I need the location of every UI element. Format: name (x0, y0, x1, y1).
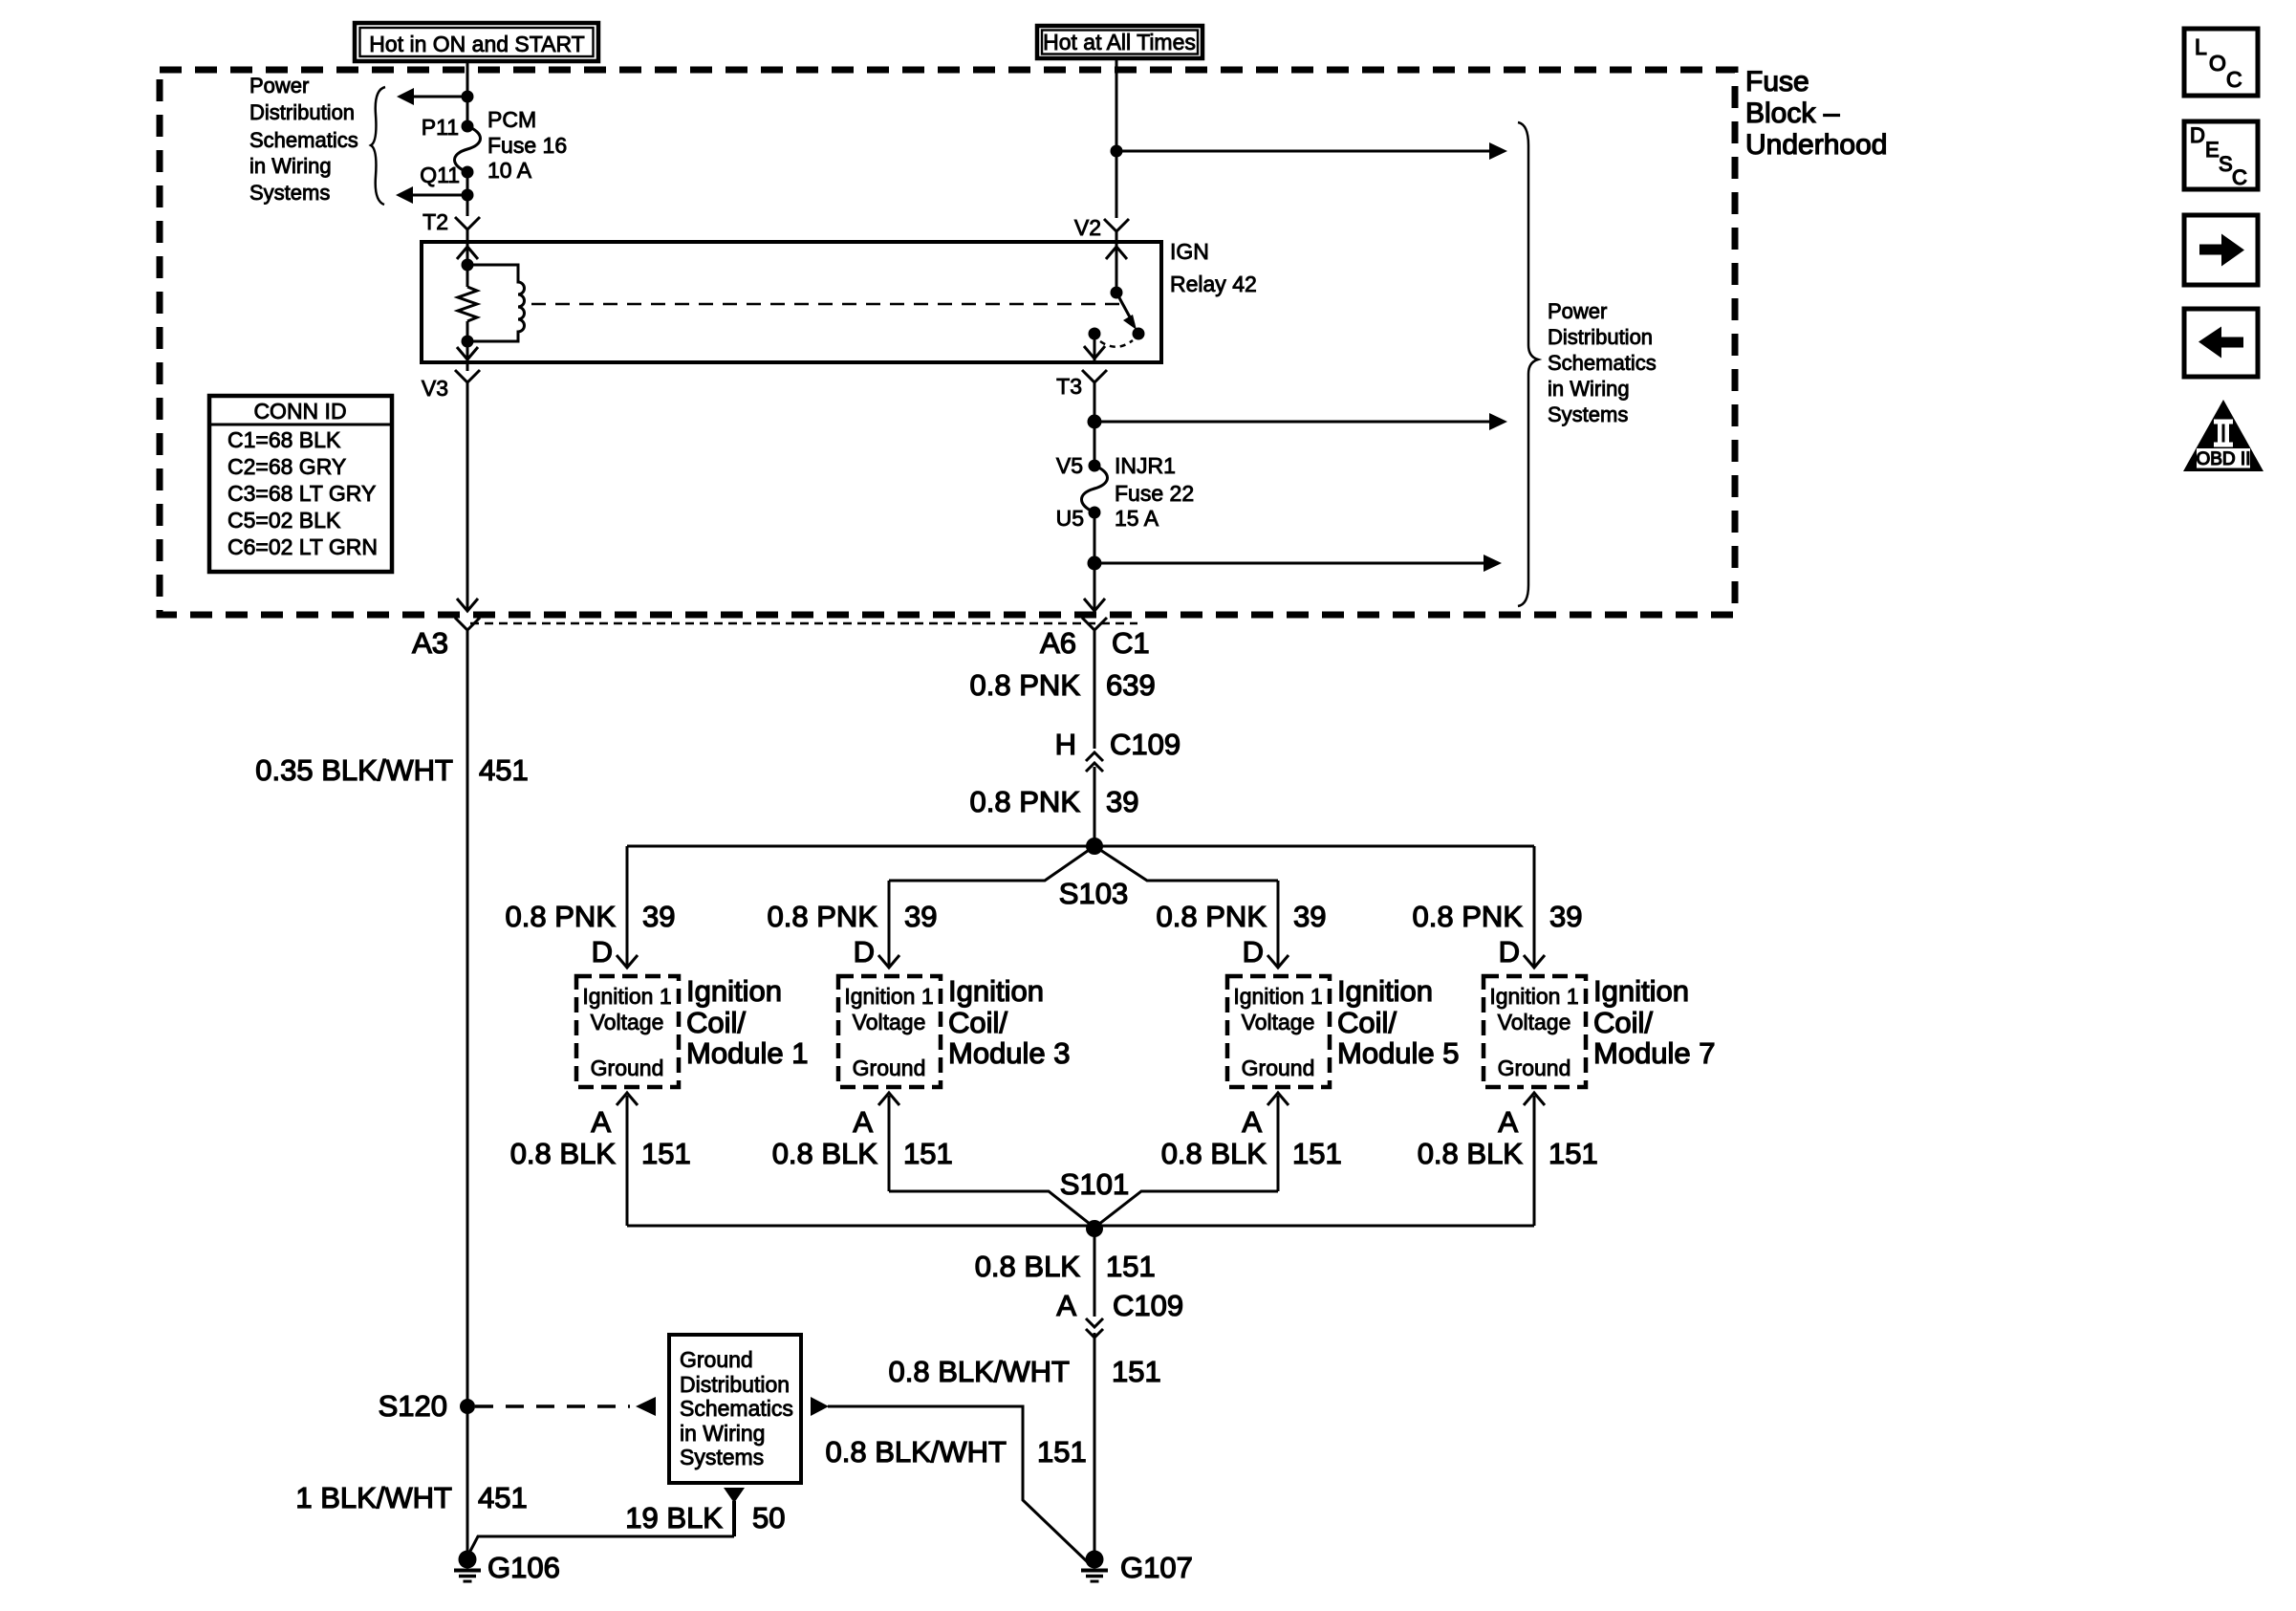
svg-text:L: L (2195, 34, 2207, 59)
junction + arrow right (fuse 22 out) (1088, 555, 1503, 572)
connector V2 (1074, 215, 1129, 240)
svg-text:G107: G107 (1120, 1551, 1193, 1584)
label 0.8 BLK/WHT 151 (ground dist leg) (826, 1435, 1087, 1469)
svg-text:Distribution: Distribution (680, 1372, 790, 1397)
svg-text:T3: T3 (1056, 374, 1082, 399)
svg-text:O: O (2209, 51, 2226, 76)
title box "Hot in ON and START" (355, 23, 598, 61)
svg-text:C5=02 BLK: C5=02 BLK (227, 508, 341, 533)
junction + arrow right (battery feed) (1111, 142, 1508, 160)
splice S101 (627, 1167, 1534, 1237)
ground G107 (1081, 1551, 1193, 1585)
svg-text:Block –: Block – (1745, 98, 1840, 129)
svg-text:C1=68 BLK: C1=68 BLK (227, 427, 341, 452)
ignition coil/module 5 box (1227, 974, 1460, 1087)
label IGN Relay 42 (1170, 239, 1257, 296)
junction (462, 189, 474, 202)
svg-text:Power: Power (1548, 299, 1607, 323)
junction + arrow right (T3 feed) (1088, 413, 1508, 430)
svg-text:Ground: Ground (591, 1056, 664, 1080)
svg-text:0.8 PNK: 0.8 PNK (1413, 900, 1524, 933)
svg-text:Coil/: Coil/ (686, 1006, 746, 1039)
resistor (relay) (458, 287, 477, 321)
svg-text:Voltage: Voltage (1498, 1010, 1571, 1034)
wire 50 (19 BLK) (467, 1488, 745, 1557)
fuse block underhood dashed border (160, 70, 1735, 615)
svg-text:151: 151 (1549, 1137, 1598, 1170)
svg-text:Systems: Systems (1548, 403, 1628, 426)
svg-text:151: 151 (1037, 1435, 1087, 1469)
svg-text:Coil/: Coil/ (1593, 1006, 1653, 1039)
wire 39 branch to module 1 (626, 846, 629, 968)
svg-text:Module 3: Module 3 (948, 1036, 1071, 1070)
svg-text:Hot in ON and START: Hot in ON and START (369, 32, 584, 56)
svg-text:in Wiring: in Wiring (1548, 377, 1630, 401)
wire V3 to A3 (466, 362, 469, 371)
svg-text:Fuse 22: Fuse 22 (1115, 481, 1194, 506)
wire 151 (0.8 BLK) below S101 (1094, 1229, 1096, 1317)
icon arrow right (2184, 215, 2258, 285)
wire T2 to relay (466, 229, 469, 245)
connector A / C109 (in-line) (1056, 1289, 1183, 1338)
svg-text:G106: G106 (487, 1551, 560, 1584)
ignition coil/module 3 box (838, 974, 1071, 1087)
svg-text:Underhood: Underhood (1745, 129, 1887, 161)
icon arrow left (2184, 309, 2258, 377)
svg-text:10 A: 10 A (487, 158, 532, 183)
svg-text:151: 151 (903, 1137, 953, 1170)
svg-text:PCM: PCM (487, 107, 536, 132)
svg-text:151: 151 (1106, 1250, 1156, 1283)
svg-text:0.8 BLK/WHT: 0.8 BLK/WHT (826, 1435, 1007, 1469)
svg-text:0.8 PNK: 0.8 PNK (768, 900, 878, 933)
icon LOC (2184, 29, 2258, 96)
svg-text:Fuse: Fuse (1745, 66, 1809, 98)
svg-text:Fuse 16: Fuse 16 (487, 133, 567, 158)
svg-text:Systems: Systems (680, 1445, 764, 1469)
relay control dashed line (531, 303, 1120, 306)
svg-text:39: 39 (1549, 900, 1582, 933)
connector T3 (1056, 370, 1107, 399)
wire from ground distribution to G107 (811, 1397, 1090, 1564)
svg-text:0.8 PNK: 0.8 PNK (970, 785, 1081, 818)
pin D (module 3) (854, 935, 899, 969)
svg-text:15 A: 15 A (1115, 506, 1159, 531)
fuse F22 (INJR1 Fuse 22 15 A) (1056, 453, 1195, 531)
pin A / ground wire (module 3) (772, 1093, 953, 1191)
pin D (module 1) (592, 935, 638, 969)
wire 151 (0.8 BLK/WHT) to G107 (1094, 1333, 1096, 1559)
connector A6 / C1 (1040, 618, 1150, 660)
wire 39 branch to module 5 (1277, 881, 1280, 968)
ignition coil/module 1 box (576, 974, 809, 1087)
svg-text:Ignition 1: Ignition 1 (582, 984, 671, 1009)
svg-text:S101: S101 (1060, 1167, 1129, 1201)
connector A3 (412, 618, 480, 660)
svg-text:C109: C109 (1110, 728, 1180, 761)
svg-text:C109: C109 (1113, 1289, 1183, 1322)
svg-text:151: 151 (1112, 1355, 1161, 1388)
svg-text:Schematics: Schematics (680, 1396, 793, 1421)
ground distribution schematics box (669, 1335, 801, 1483)
svg-text:in Wiring: in Wiring (680, 1421, 765, 1446)
ground G106 (454, 1551, 560, 1585)
svg-text:Module 7: Module 7 (1593, 1036, 1716, 1070)
svg-text:Ignition 1: Ignition 1 (1489, 984, 1578, 1009)
wire 39 branch to module 7 (1533, 846, 1536, 968)
relay coil winding (467, 265, 525, 341)
wire 451 (left, 0.35 BLK/WHT) (466, 630, 469, 1557)
svg-text:Ignition: Ignition (948, 974, 1044, 1008)
wire: Hot at All Times feed (1116, 58, 1118, 218)
svg-text:451: 451 (479, 753, 529, 787)
svg-text:Distribution: Distribution (1548, 325, 1653, 349)
svg-text:Ignition: Ignition (1593, 974, 1689, 1008)
icon OBD II (2183, 400, 2264, 471)
junction (462, 91, 474, 103)
svg-text:H: H (1055, 728, 1076, 761)
svg-text:0.35 BLK/WHT: 0.35 BLK/WHT (255, 753, 453, 787)
connector T2 (422, 209, 480, 234)
brace (left) (371, 87, 385, 205)
svg-text:Ground: Ground (680, 1347, 753, 1372)
svg-text:C6=02 LT GRN: C6=02 LT GRN (227, 534, 378, 559)
svg-text:39: 39 (1293, 900, 1326, 933)
svg-text:C: C (2226, 67, 2242, 92)
connector V3 (422, 370, 480, 401)
svg-text:Distribution: Distribution (249, 100, 355, 124)
svg-text:Ignition 1: Ignition 1 (844, 984, 933, 1009)
svg-text:A: A (1056, 1289, 1076, 1322)
svg-text:0.8 PNK: 0.8 PNK (1157, 900, 1267, 933)
svg-text:50: 50 (752, 1501, 785, 1535)
svg-text:0.8 PNK: 0.8 PNK (506, 900, 617, 933)
wire 39 (0.8 PNK) (1094, 767, 1096, 846)
svg-text:151: 151 (1292, 1137, 1342, 1170)
svg-text:Voltage: Voltage (1242, 1010, 1315, 1034)
svg-text:U5: U5 (1056, 506, 1084, 531)
label 0.8 PNK 639 (970, 668, 1156, 702)
svg-text:V2: V2 (1074, 215, 1101, 240)
arrow to power distribution (upper) (397, 88, 467, 105)
svg-text:Systems: Systems (249, 181, 330, 205)
svg-text:Module 1: Module 1 (686, 1036, 809, 1070)
svg-text:D: D (2190, 123, 2205, 147)
wire 39 branch to module 3 (888, 881, 891, 968)
svg-text:639: 639 (1106, 668, 1156, 702)
wire: Hot in ON feed down to fuse (466, 61, 469, 126)
svg-text:151: 151 (641, 1137, 691, 1170)
svg-text:D: D (592, 935, 613, 969)
svg-text:Schematics: Schematics (1548, 351, 1657, 375)
wire below fuse (466, 172, 469, 216)
svg-text:451: 451 (478, 1481, 528, 1514)
pin A / ground wire (module 7) (1418, 1093, 1598, 1226)
pin D (module 5) (1243, 935, 1289, 969)
relay coil branch (left pin) (457, 242, 525, 362)
label 0.8 PNK 39 (970, 785, 1139, 818)
svg-text:IGN: IGN (1170, 239, 1209, 264)
pin A / ground wire (module 5) (1161, 1093, 1342, 1191)
svg-text:1 BLK/WHT: 1 BLK/WHT (295, 1481, 452, 1514)
svg-text:Ignition: Ignition (1337, 974, 1433, 1008)
relay switch (1084, 242, 1145, 362)
fuse F16 (PCM Fuse 16 10 A) (420, 107, 567, 187)
svg-text:INJR1: INJR1 (1115, 453, 1176, 478)
svg-text:0.8 BLK/WHT: 0.8 BLK/WHT (889, 1355, 1071, 1388)
ignition coil/module 7 box (1484, 974, 1716, 1087)
svg-text:Ground: Ground (853, 1056, 926, 1080)
svg-text:Module 5: Module 5 (1337, 1036, 1460, 1070)
svg-text:0.8 BLK: 0.8 BLK (1161, 1137, 1267, 1170)
pin A / ground wire (module 1) (510, 1093, 691, 1226)
svg-text:P11: P11 (422, 115, 459, 140)
CONN ID table (209, 396, 392, 572)
brace (right) (1518, 122, 1538, 606)
wire 639 (0.8 PNK) (1094, 630, 1096, 749)
svg-text:Ignition: Ignition (686, 974, 782, 1008)
svg-text:Ground: Ground (1242, 1056, 1315, 1080)
svg-text:Q11: Q11 (420, 163, 460, 187)
svg-text:D: D (1499, 935, 1520, 969)
svg-text:Coil/: Coil/ (948, 1006, 1007, 1039)
pin D (module 7) (1499, 935, 1545, 969)
relay 42 box (IGN Relay 42) (422, 242, 1161, 362)
connector C1 dashed separation line (470, 622, 1137, 625)
svg-text:C3=68 LT GRY: C3=68 LT GRY (227, 481, 376, 506)
svg-text:V3: V3 (422, 376, 448, 401)
svg-text:C: C (2232, 165, 2247, 189)
splice S120 (379, 1389, 475, 1423)
svg-text:0.8 PNK: 0.8 PNK (970, 668, 1081, 702)
svg-text:V5: V5 (1056, 453, 1083, 478)
svg-text:S120: S120 (379, 1389, 447, 1423)
note: Power Distribution Schematics in Wiring Systems (right) (1548, 299, 1657, 426)
svg-text:A6: A6 (1040, 626, 1076, 660)
svg-text:A: A (591, 1105, 611, 1139)
svg-text:Schematics: Schematics (249, 128, 358, 152)
arrow to power distribution (lower) (396, 186, 467, 204)
svg-text:Voltage: Voltage (591, 1010, 664, 1034)
note: Power Distribution Schematics in Wiring Systems (top left) (249, 74, 358, 205)
svg-text:39: 39 (642, 900, 675, 933)
svg-text:A3: A3 (412, 626, 448, 660)
svg-text:A: A (1498, 1105, 1518, 1139)
label Fuse Block - Underhood (1745, 66, 1887, 161)
svg-text:A: A (1242, 1105, 1262, 1139)
svg-text:Hot at All Times: Hot at All Times (1043, 30, 1196, 54)
splice S103 (627, 838, 1534, 910)
svg-text:Coil/: Coil/ (1337, 1006, 1397, 1039)
svg-text:0.8 BLK: 0.8 BLK (510, 1137, 617, 1170)
svg-text:19 BLK: 19 BLK (625, 1501, 723, 1535)
label 1 BLK/WHT 451 (295, 1481, 527, 1514)
svg-text:0.8 BLK: 0.8 BLK (975, 1250, 1081, 1283)
svg-text:T2: T2 (422, 209, 448, 234)
svg-text:OBD II: OBD II (2196, 449, 2250, 469)
svg-text:A: A (853, 1105, 873, 1139)
svg-text:0.8 BLK: 0.8 BLK (772, 1137, 878, 1170)
svg-text:Relay 42: Relay 42 (1170, 272, 1257, 296)
svg-text:E: E (2205, 138, 2220, 162)
svg-text:S103: S103 (1059, 877, 1128, 910)
svg-text:C2=68 GRY: C2=68 GRY (227, 454, 346, 479)
svg-text:C1: C1 (1112, 626, 1150, 660)
svg-text:S: S (2219, 152, 2233, 176)
svg-text:D: D (854, 935, 875, 969)
label 0.35 BLK/WHT 451 (255, 753, 528, 787)
svg-text:CONN ID: CONN ID (253, 399, 346, 424)
dashed wire S120 to ground distribution (475, 1404, 630, 1408)
icon DESC (2184, 121, 2258, 189)
svg-text:Ignition 1: Ignition 1 (1233, 984, 1322, 1009)
svg-text:D: D (1243, 935, 1264, 969)
svg-text:Ground: Ground (1498, 1056, 1571, 1080)
connector H / C109 (in-line) (1055, 728, 1181, 772)
svg-text:0.8 BLK: 0.8 BLK (1418, 1137, 1524, 1170)
svg-text:in Wiring: in Wiring (249, 154, 332, 178)
title box "Hot at All Times" (1037, 26, 1202, 58)
svg-text:39: 39 (904, 900, 937, 933)
svg-text:Power: Power (249, 74, 309, 98)
svg-text:39: 39 (1106, 785, 1138, 818)
svg-text:Voltage: Voltage (853, 1010, 926, 1034)
